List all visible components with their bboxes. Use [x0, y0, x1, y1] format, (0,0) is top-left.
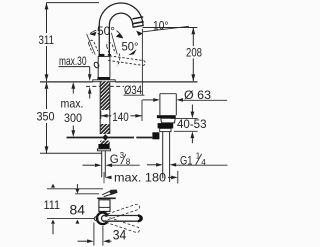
arc 50 right segment + arrowhead: [116, 31, 123, 39]
threaded shank upper: [100, 81, 110, 110]
top view body: [99, 200, 110, 212]
Ø63 dimension arrows: [142, 98, 183, 102]
max.30 underline leader: [59, 66, 90, 68]
body cap nub right: [108, 54, 111, 56]
arrowhead pointing to dashed handle: [128, 49, 136, 55]
svg-text:111: 111: [44, 198, 61, 212]
dim 208 vertical line: [191, 28, 195, 82]
handle knob ellipse: [93, 61, 99, 68]
G 3/8 dimension arrows: [83, 163, 140, 167]
Ø34 underline: [124, 94, 145, 96]
body cap nub left: [99, 54, 105, 57]
svg-text:50°: 50°: [122, 40, 139, 54]
dim 111 top arrow: [51, 184, 55, 188]
handle centerline right: [111, 33, 117, 55]
dim 311 extension line top: [47, 2, 100, 4]
top view cap bar: [97, 197, 116, 199]
dim 350 vertical line: [45, 82, 49, 153]
dim 40-53 top extension: [171, 117, 198, 119]
base flange: [93, 80, 115, 82]
G 3/8 fraction slash: [121, 154, 126, 164]
top view spout tube: [102, 216, 143, 222]
drain locknut: [158, 123, 174, 128]
dim 111 bottom line: [47, 218, 94, 220]
spout gooseneck tube: [104, 8, 138, 58]
handle centerline left: [87, 34, 96, 55]
pop-up rod: [67, 137, 153, 139]
pivot circle: [94, 217, 98, 221]
nut flange: [97, 149, 110, 151]
Ø63 underline: [180, 99, 227, 101]
svg-text:G1: G1: [180, 156, 193, 168]
svg-text:350: 350: [37, 110, 55, 124]
svg-text:311: 311: [39, 33, 55, 47]
max.30 up arrow: [88, 87, 92, 99]
drain upper nut: [161, 118, 175, 123]
svg-text:50°: 50°: [97, 24, 115, 38]
max.300 top arrow: [71, 82, 75, 94]
rod connector block: [152, 132, 159, 139]
deck line right part: [115, 81, 197, 83]
10 degree arrowhead: [136, 31, 143, 36]
G 3/8 label: [110, 151, 131, 167]
counter underside dashed line: [86, 85, 124, 87]
threaded shank lower: [100, 124, 110, 134]
aerator bands: [132, 17, 143, 24]
dim max.180: [105, 171, 178, 184]
dim 311 vertical line: [45, 3, 49, 82]
thread below rod: [100, 141, 110, 144]
dim 84 bottom arrow: [75, 220, 79, 224]
handle dashed outline right: [107, 43, 115, 55]
Ø34 leader vertical: [141, 29, 143, 95]
ghost spout lower: [103, 216, 140, 233]
G 1 1/4 label: [180, 152, 206, 168]
dim 34 line and arrows: [78, 239, 112, 243]
dim 34 left reference: [93, 223, 95, 246]
body outline: [98, 56, 110, 77]
dim 208 top extension line: [143, 27, 198, 29]
dim 40-53 down arrow: [191, 105, 195, 119]
svg-text:40-53: 40-53: [177, 117, 207, 131]
drain flange band: [157, 115, 176, 118]
body top edge: [98, 55, 110, 57]
drain hex: [160, 128, 171, 131]
max.30 down arrow: [88, 67, 92, 81]
svg-text:max. 180: max. 180: [114, 171, 166, 185]
G 1 1/4 dimension arrows: [147, 163, 228, 167]
swivel ball ring: [97, 213, 109, 225]
svg-text:84: 84: [70, 202, 86, 218]
dashed handle right-horizontal: [108, 56, 145, 66]
dim 40-53 bottom extension: [174, 130, 198, 132]
max.300 bottom arrow: [71, 126, 75, 138]
dim 140 right reference line: [141, 100, 143, 121]
supply tailpiece: [102, 151, 106, 184]
svg-text:140: 140: [112, 110, 129, 124]
G 1 1/4 fraction slash: [196, 154, 202, 165]
mounting nut: [98, 144, 109, 149]
dim 111 bottom arrow: [51, 220, 55, 235]
arc 50 left segment + arrowhead: [89, 30, 96, 36]
dim 84 top line: [75, 193, 99, 195]
dim 140 line and arrows: [101, 114, 142, 118]
deck line: [40, 81, 93, 83]
svg-text:max.: max.: [61, 97, 84, 111]
dim 350 bottom extension line: [40, 152, 102, 154]
shank tube gap: [100, 110, 110, 124]
rod diamond joint: [102, 134, 108, 140]
dim 34 right reference: [102, 226, 104, 246]
ghost spout upper: [103, 204, 140, 221]
handle dashed outline left: [89, 40, 98, 53]
svg-text:300: 300: [64, 111, 82, 125]
svg-text:max.30: max.30: [59, 54, 87, 68]
top view: lever reference line: [47, 188, 103, 190]
dim 40-53 up arrow: [191, 131, 195, 143]
10 degree angle line: [143, 26, 189, 32]
drain lift knob: [160, 94, 176, 116]
dim 140 left tick: [100, 111, 102, 120]
drain tailpipe: [163, 132, 170, 182]
svg-text:34: 34: [113, 227, 127, 242]
dim 84 top arrow: [75, 184, 79, 194]
svg-text:Ø 63: Ø 63: [184, 88, 211, 102]
top view lever: [102, 190, 117, 197]
dashed swing arc right: [117, 54, 120, 67]
svg-text:208: 208: [186, 46, 202, 60]
base dark bar: [97, 77, 110, 80]
top view spout tip dark: [138, 216, 141, 222]
